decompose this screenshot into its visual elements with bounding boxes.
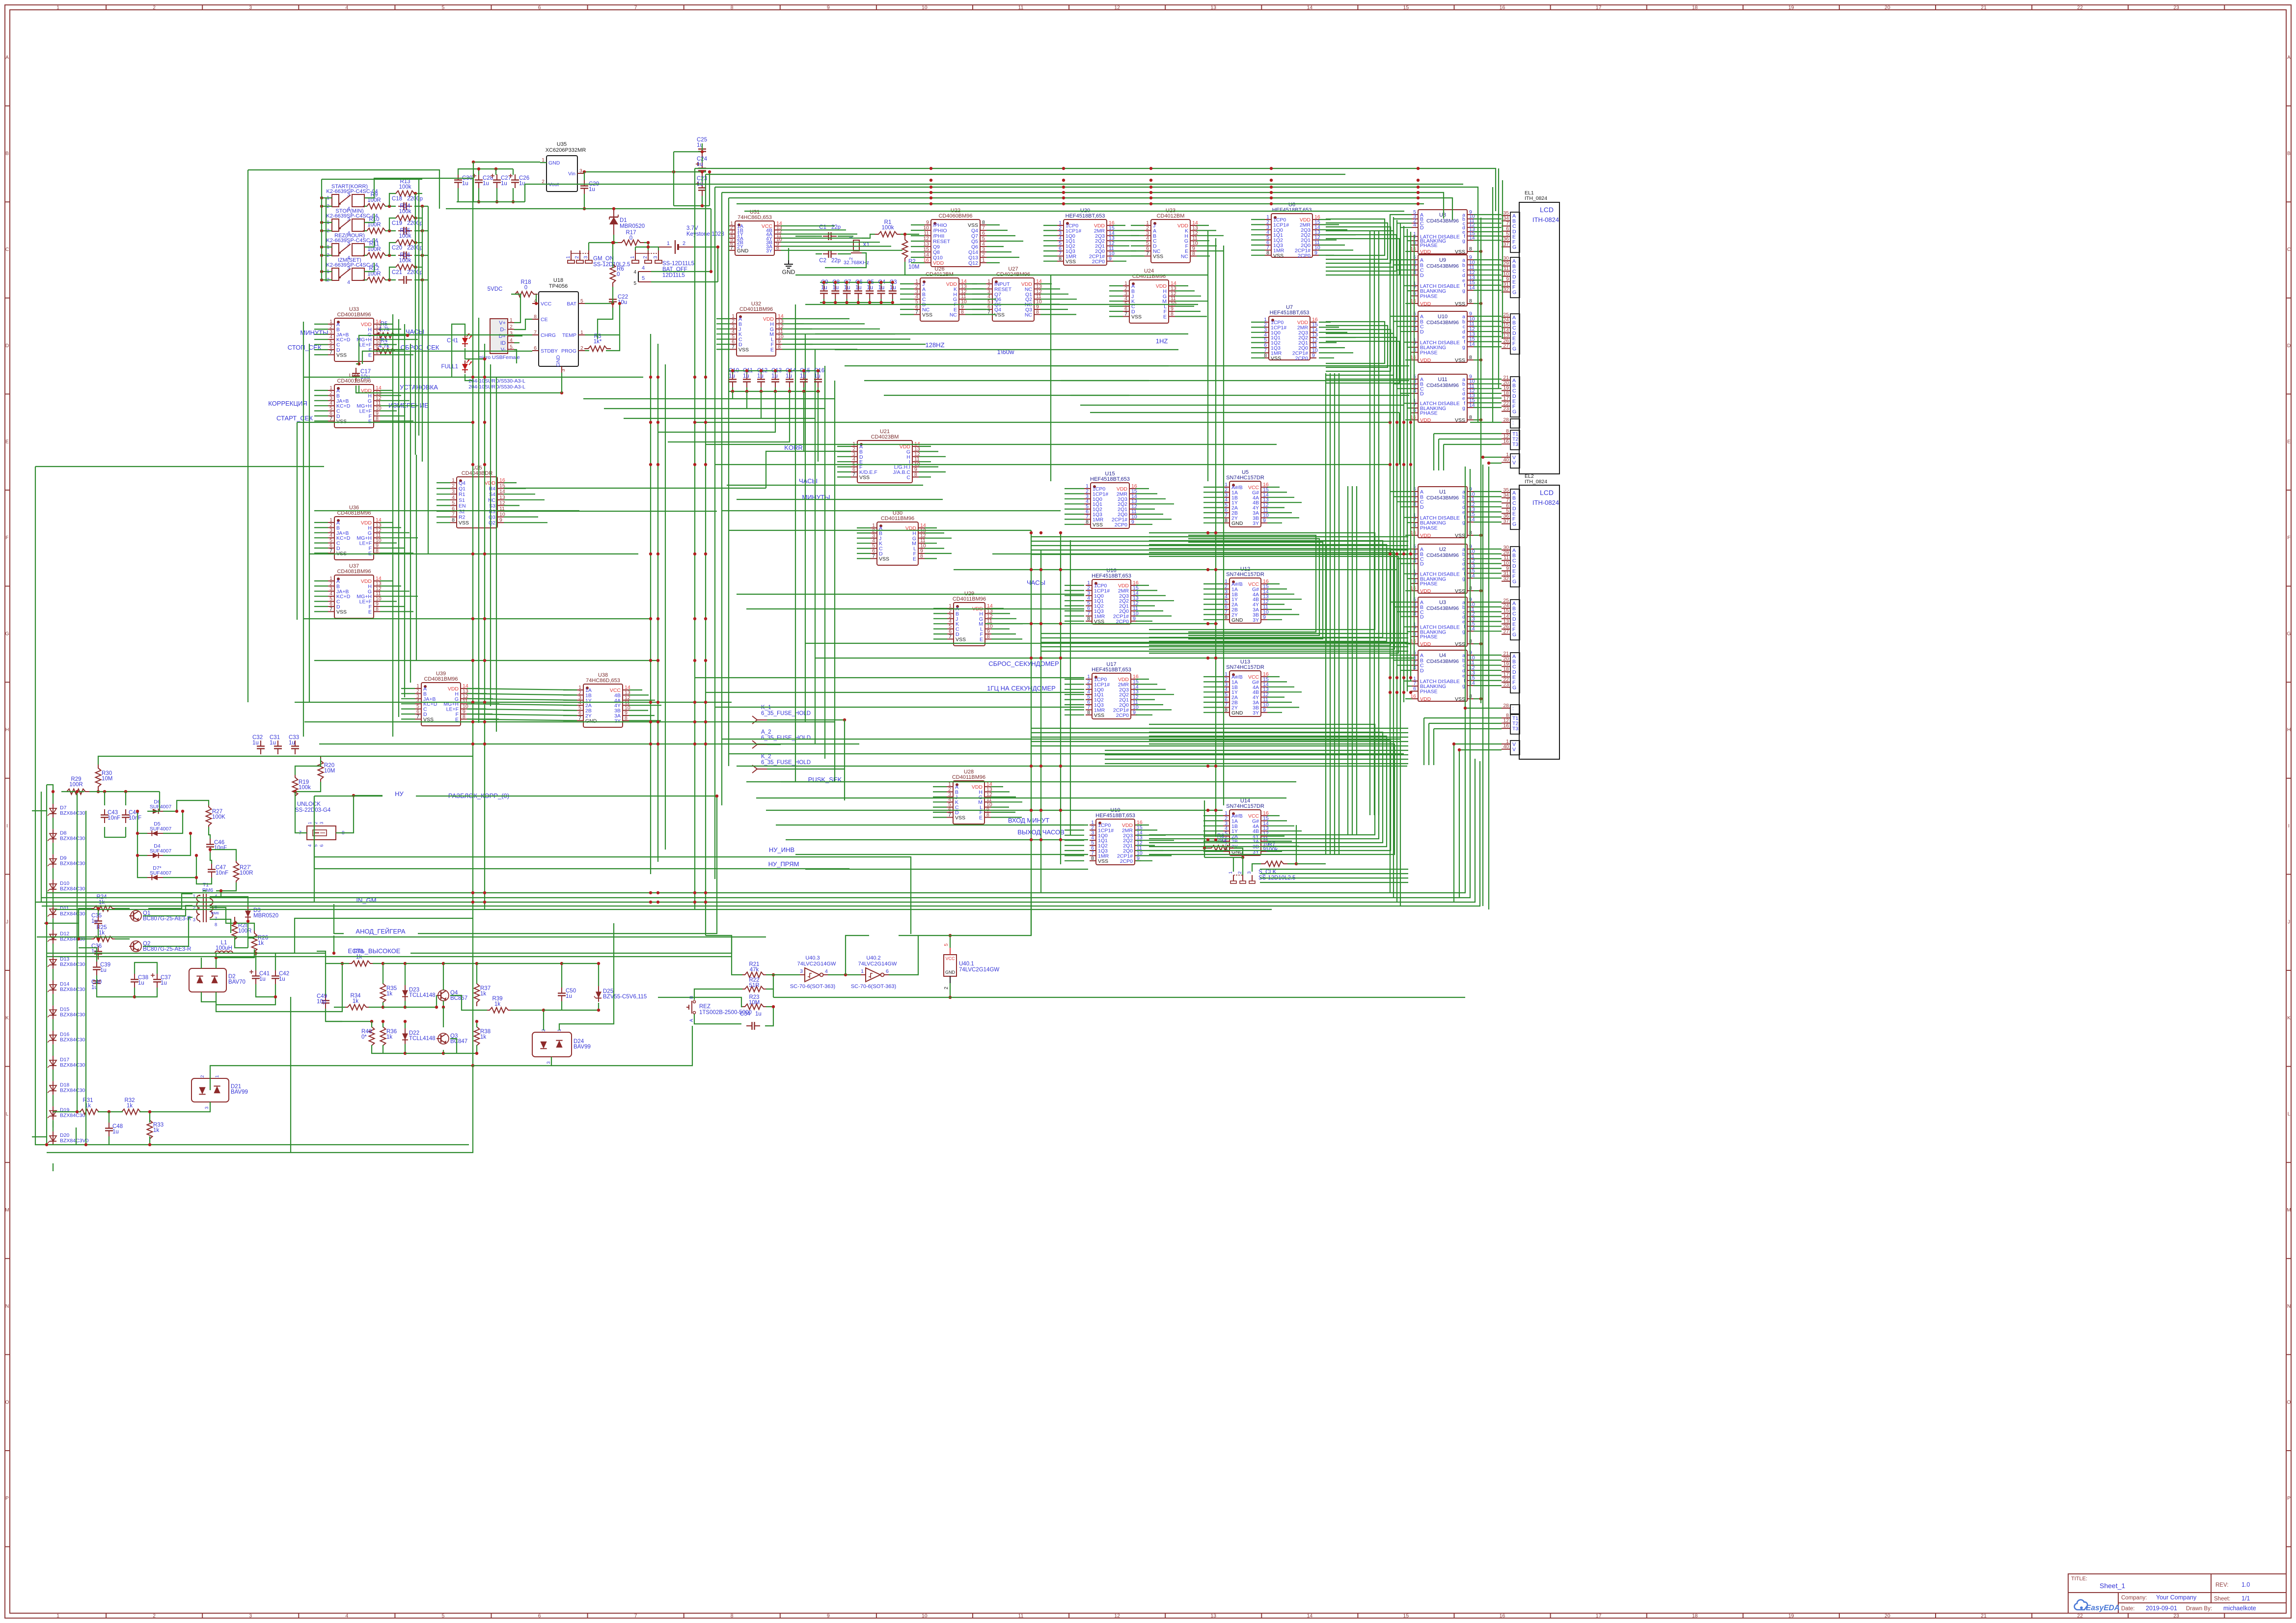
svg-text:1k: 1k [153, 1128, 159, 1133]
wire [612, 294, 613, 303]
wire [1260, 882, 1408, 883]
svg-text:1u: 1u [112, 1129, 119, 1135]
svg-text:D1: D1 [620, 218, 627, 223]
wire [1136, 829, 1157, 830]
wire [53, 994, 54, 1005]
wire [919, 471, 946, 472]
svg-text:D: D [2287, 343, 2291, 349]
wire [115, 908, 130, 909]
wire [1204, 857, 1243, 858]
svg-text::: : [1512, 420, 1514, 426]
wire [450, 1039, 457, 1053]
wire [986, 257, 1019, 258]
svg-text:VDD: VDD [1420, 249, 1431, 255]
svg-text:R4: R4 [489, 486, 496, 492]
svg-text:7: 7 [329, 415, 332, 421]
wire [761, 387, 762, 391]
wire [1356, 486, 1357, 835]
svg-text:5: 5 [452, 500, 455, 506]
svg-text:ITH-0824: ITH-0824 [1532, 216, 1559, 223]
svg-text:100R: 100R [238, 928, 252, 934]
wire [950, 935, 951, 948]
wire [326, 1021, 342, 1022]
wire [674, 205, 710, 206]
svg-text:100k: 100k [399, 184, 411, 190]
wire [1149, 545, 1387, 641]
wire [1031, 550, 1408, 550]
wire [53, 1163, 54, 1171]
wire [1065, 679, 1084, 680]
wire [1390, 491, 1412, 492]
wire [1319, 249, 1353, 250]
wire [1203, 702, 1223, 703]
wire [1050, 275, 1051, 481]
wire [1474, 573, 1502, 574]
wire [744, 211, 1404, 212]
wire [1267, 609, 1292, 610]
wire [275, 918, 473, 953]
svg-text:GND: GND [548, 160, 560, 166]
svg-text:BC807G-25-AE3-R: BC807G-25-AE3-R [143, 946, 191, 952]
svg-text:7: 7 [872, 553, 875, 559]
wire [776, 825, 1088, 825]
wire [1131, 246, 1145, 247]
wire [47, 785, 53, 792]
wire [782, 323, 804, 324]
wire [380, 334, 410, 335]
wire [1319, 337, 1356, 338]
wire [1267, 594, 1294, 595]
svg-text:19: 19 [1788, 5, 1794, 11]
wire [1474, 568, 1502, 569]
wire [303, 377, 643, 378]
svg-text:C19: C19 [392, 220, 402, 226]
svg-text:74LVC2G14GW: 74LVC2G14GW [797, 961, 836, 967]
wire [721, 193, 722, 805]
wire [414, 193, 422, 194]
wire [1474, 388, 1502, 389]
wire [781, 242, 880, 243]
svg-text:C: C [5, 247, 9, 252]
wire [1197, 225, 1209, 226]
svg-text:1u: 1u [832, 285, 839, 291]
wire [148, 894, 192, 908]
svg-text:НУ: НУ [395, 790, 404, 798]
wire [991, 623, 1023, 624]
svg-text:S_CLK: S_CLK [1258, 869, 1277, 875]
wire [775, 371, 776, 374]
wire [1489, 463, 1502, 464]
wire [1483, 457, 1502, 458]
wire [818, 387, 819, 391]
wire [1260, 869, 1408, 870]
svg-text:V-: V- [501, 347, 506, 353]
IC U11 CD4543BM96 [1410, 374, 1475, 423]
wire [504, 488, 526, 489]
wire [1203, 619, 1223, 620]
wire [732, 391, 733, 399]
wire [1070, 540, 1071, 835]
wire [986, 230, 1008, 231]
IC U24 CD4011BM96 [1123, 268, 1176, 323]
svg-text:LCD: LCD [1540, 489, 1554, 496]
svg-text:1u: 1u [161, 980, 167, 986]
svg-text:BZX84C30: BZX84C30 [60, 810, 85, 816]
wire [85, 811, 86, 1145]
capacitor C29 [584, 180, 585, 186]
wire [1131, 225, 1145, 226]
wire [303, 322, 304, 737]
wire [1405, 251, 1412, 252]
wire [1397, 222, 1412, 223]
wire [401, 718, 415, 719]
wire [1203, 507, 1223, 508]
wire [314, 329, 328, 330]
wire [37, 936, 766, 937]
svg-text:0: 0 [629, 235, 632, 241]
svg-text:32: 32 [1503, 287, 1509, 293]
wire [1043, 225, 1057, 226]
svg-text:8: 8 [1087, 710, 1090, 715]
wire [820, 282, 892, 283]
wire [1065, 514, 1084, 515]
wire [53, 918, 54, 930]
wire [598, 307, 613, 339]
wire [1031, 737, 1408, 738]
wire [1474, 222, 1502, 223]
wire [437, 511, 450, 512]
wire [1326, 322, 1385, 363]
wire [309, 553, 638, 554]
wire [563, 700, 577, 701]
svg-text:9: 9 [499, 517, 502, 523]
wire [1414, 235, 1415, 670]
wire [1407, 578, 1412, 579]
wire [314, 324, 328, 325]
wire [612, 243, 613, 255]
wire [380, 390, 393, 391]
wire [693, 247, 718, 282]
wire [1319, 322, 1331, 323]
wire [1251, 229, 1265, 230]
wire [314, 580, 328, 581]
svg-text:H: H [2287, 727, 2291, 733]
wire [314, 552, 328, 553]
wire [422, 206, 423, 462]
svg-text:CD4543BM96: CD4543BM96 [1426, 495, 1459, 501]
wire [1267, 691, 1302, 692]
wire [729, 530, 1031, 531]
svg-text:BAV99: BAV99 [231, 1089, 248, 1095]
svg-text:CHRG: CHRG [541, 332, 556, 338]
inductor L1 [211, 951, 237, 954]
wire [820, 302, 892, 303]
wire [1405, 698, 1412, 699]
wire [857, 548, 871, 549]
resistor R3 [584, 346, 611, 352]
wire [1203, 707, 1223, 708]
wire [1474, 379, 1502, 380]
wire [1136, 493, 1157, 494]
svg-text:PHASE: PHASE [1420, 411, 1438, 416]
svg-text:CD4012BM: CD4012BM [1157, 213, 1185, 219]
wire [504, 511, 529, 512]
wire [467, 714, 492, 715]
wire [1043, 255, 1057, 256]
wire [437, 482, 450, 483]
resistor R7 [1261, 861, 1287, 867]
wire [837, 446, 851, 447]
wire [1394, 660, 1412, 660]
wire [1423, 718, 1424, 765]
svg-text:3Y: 3Y [1253, 617, 1259, 623]
svg-text:8: 8 [1087, 616, 1090, 622]
wire [1474, 685, 1502, 686]
wire [295, 702, 732, 703]
wire [919, 466, 938, 467]
fuse holder K_2 [752, 754, 811, 773]
wire [604, 408, 825, 409]
IC U28 CD4011BM96 [947, 769, 992, 824]
svg-text:1: 1 [982, 257, 985, 263]
wire [364, 238, 374, 247]
wire [380, 527, 401, 528]
IC U26 CD4012BM [914, 266, 967, 321]
svg-text:15: 15 [1403, 1613, 1409, 1619]
junction dots at bus crossings [471, 376, 474, 379]
svg-text:1k: 1k [258, 940, 264, 946]
wire [53, 1120, 54, 1131]
wire [1136, 498, 1166, 499]
svg-text:1u: 1u [844, 285, 850, 291]
capacitor C47 [211, 864, 212, 870]
svg-text:100K: 100K [212, 814, 225, 820]
diode D5 SUF4007 [147, 821, 171, 836]
LED CH1 [462, 338, 468, 344]
svg-text:1.0: 1.0 [2241, 1581, 2250, 1588]
wire [695, 422, 1390, 423]
wire [380, 354, 413, 355]
wire [1474, 259, 1502, 260]
wire [1043, 230, 1057, 231]
resistor R22 [741, 987, 767, 992]
wire [1031, 732, 1408, 733]
wire [210, 891, 221, 897]
wire [137, 833, 147, 855]
wire [380, 344, 397, 345]
wire [1474, 275, 1502, 275]
wire [1065, 835, 1084, 836]
wire [1400, 393, 1412, 394]
svg-text:michaelkote: michaelkote [2223, 1605, 2256, 1612]
wire [401, 703, 415, 704]
wire [443, 1045, 477, 1053]
wire [1203, 588, 1223, 589]
capacitor C21 [398, 279, 404, 280]
svg-text:MBR0520: MBR0520 [253, 913, 278, 919]
power cell U40.1 74LVC2G14GW [944, 943, 999, 990]
wire [414, 255, 428, 256]
wire [629, 715, 655, 716]
IC U38 74HC86D,653 [577, 672, 630, 727]
wire [1215, 491, 1216, 837]
wire [1474, 602, 1502, 603]
wire [163, 811, 183, 833]
svg-text:O: O [2287, 1399, 2291, 1405]
capacitor C10 [732, 374, 733, 380]
svg-text:VSS: VSS [956, 636, 966, 642]
IC U1 CD4543BM96 [1410, 486, 1475, 539]
svg-text:G: G [1512, 245, 1516, 250]
wire [1149, 728, 1379, 839]
capacitor C50 [561, 988, 562, 993]
wire [467, 708, 486, 709]
wire [1040, 288, 1060, 289]
wire [837, 451, 851, 452]
svg-text:E: E [368, 352, 372, 358]
wire [1136, 709, 1172, 710]
wire [563, 710, 577, 711]
wire [504, 522, 547, 523]
svg-text:1u: 1u [589, 187, 595, 193]
wire [911, 224, 925, 225]
wire [322, 230, 332, 231]
svg-text:ЧАСЫ: ЧАСЫ [1027, 579, 1045, 586]
LCD segment connector block [1502, 739, 1520, 755]
wire [1065, 585, 1084, 586]
wire [1031, 893, 1032, 935]
wire [473, 162, 474, 202]
wire [398, 319, 399, 717]
svg-text:7: 7 [329, 349, 332, 355]
transistor Q1 [131, 910, 141, 921]
wire [1474, 251, 1481, 252]
wire [405, 1021, 406, 1028]
svg-text:23: 23 [2173, 1613, 2179, 1619]
wire [1267, 825, 1294, 826]
wire [458, 188, 459, 202]
wire [585, 303, 613, 304]
svg-text:GND: GND [1231, 521, 1243, 526]
wire [1267, 492, 1287, 493]
wire [561, 1001, 562, 1010]
capacitor C1 [823, 236, 829, 237]
resistor R17 [618, 240, 644, 246]
resistor R26 [252, 929, 257, 956]
wire [405, 1050, 443, 1053]
wire [965, 299, 996, 300]
capacitor C35 [98, 915, 99, 921]
svg-text:U40.2: U40.2 [866, 955, 880, 961]
wire [1390, 316, 1412, 317]
wire [1043, 235, 1057, 236]
wire [467, 714, 577, 715]
svg-text:VSS: VSS [1093, 522, 1103, 528]
svg-text:5: 5 [633, 281, 636, 286]
wire [105, 827, 126, 837]
wire [1136, 503, 1174, 504]
wire [1203, 614, 1223, 615]
svg-text:BZX84C30: BZX84C30 [60, 886, 85, 892]
wire [1149, 724, 1375, 835]
svg-text:3: 3 [249, 1613, 252, 1619]
wire [965, 314, 996, 315]
wire [965, 303, 983, 304]
wire [1411, 583, 1412, 584]
wire [314, 601, 328, 602]
wire [53, 868, 54, 880]
svg-text:10p: 10p [317, 999, 326, 1005]
wire [781, 250, 902, 251]
wire [490, 364, 491, 706]
switch SW3 REZ(HOUR) [326, 233, 378, 261]
svg-text:8: 8 [376, 415, 379, 421]
capacitor C39 [96, 962, 97, 967]
svg-text:PROG: PROG [561, 348, 576, 354]
resistor R20 [318, 757, 324, 783]
wire [857, 543, 871, 544]
wire [950, 893, 1031, 935]
capacitor C15 [803, 374, 804, 380]
svg-text:X1: X1 [863, 242, 870, 248]
wire [835, 349, 1178, 350]
wire [919, 451, 938, 452]
wire [900, 303, 914, 304]
wire [1404, 517, 1412, 518]
capacitor C25 [702, 143, 703, 149]
svg-text:E: E [2287, 439, 2291, 444]
svg-text:1u: 1u [138, 980, 144, 986]
wire [1474, 511, 1502, 512]
resistor R9 [363, 204, 389, 209]
wire [1411, 527, 1412, 528]
wire [1267, 599, 1302, 600]
wire [795, 338, 910, 339]
svg-text:3: 3 [583, 256, 589, 259]
svg-text:N: N [2287, 1303, 2291, 1309]
svg-text:3: 3 [249, 5, 252, 11]
wire [1267, 681, 1287, 682]
wire [795, 318, 849, 319]
svg-text:EN: EN [459, 503, 466, 509]
wire [838, 236, 853, 237]
wire [1474, 491, 1502, 492]
wire [98, 1111, 123, 1112]
svg-text:SUF4007: SUF4007 [150, 870, 172, 876]
svg-text:3: 3 [1247, 871, 1252, 874]
wire [314, 857, 911, 934]
wire [612, 287, 613, 294]
svg-text:VSS: VSS [1455, 533, 1465, 539]
wire [1203, 604, 1223, 605]
wire [1400, 506, 1412, 507]
wire [1113, 250, 1136, 251]
svg-text:20: 20 [1885, 5, 1890, 11]
wire [514, 342, 519, 343]
svg-text:1k: 1k [99, 930, 105, 936]
transistor Q2 [131, 941, 141, 952]
svg-text:СБРОС_СЕКУНДОМЕР: СБРОС_СЕКУНДОМЕР [988, 660, 1059, 667]
wire [658, 391, 775, 432]
svg-text:VSS: VSS [459, 520, 469, 526]
wire [933, 628, 947, 629]
capacitor C2 [823, 253, 829, 254]
wire [35, 902, 314, 903]
wire [147, 792, 160, 811]
wire [53, 1121, 54, 1128]
svg-text:10M: 10M [102, 776, 112, 782]
svg-text:D: D [1420, 668, 1424, 674]
